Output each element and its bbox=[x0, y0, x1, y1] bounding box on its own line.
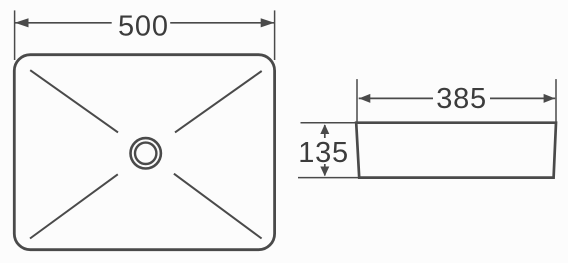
side-view body outline bbox=[356, 123, 556, 178]
svg-text:385: 385 bbox=[436, 83, 487, 115]
diagonal line top-left bbox=[30, 70, 118, 132]
diagonal line bottom-right bbox=[174, 174, 262, 239]
dimension 385 extension line right bbox=[555, 79, 557, 122]
dimension 385 line left segment bbox=[359, 97, 433, 99]
dimension 385 arrowhead right bbox=[544, 94, 555, 103]
dimension 135 arrowhead up bbox=[320, 124, 329, 134]
dimension 385 line right segment bbox=[490, 97, 555, 99]
dimension 385 extension line left bbox=[356, 79, 358, 122]
dimension 135 arrowhead down bbox=[320, 167, 329, 177]
dimension 135 line upper segment bbox=[324, 125, 326, 138]
diagonal line bottom-left bbox=[30, 174, 118, 238]
svg-text:135: 135 bbox=[298, 137, 349, 169]
side-view bottom extension line left bbox=[298, 177, 359, 179]
dimension 135 line lower segment bbox=[324, 164, 326, 176]
basin top-view outline bbox=[14, 55, 274, 250]
dimension 500 arrowhead right bbox=[261, 18, 275, 27]
dimension 500 extension line left bbox=[14, 10, 16, 60]
diagonal line top-right bbox=[175, 71, 262, 132]
svg-text:500: 500 bbox=[118, 11, 169, 43]
side-view rim extension line left (top) bbox=[301, 122, 357, 124]
dimension 500 line left segment bbox=[15, 22, 112, 24]
dimension 500 line right segment bbox=[170, 22, 274, 24]
dimension 385 arrowhead left bbox=[359, 94, 370, 103]
dimension 500 extension line right bbox=[274, 10, 276, 60]
drain outer circle bbox=[131, 138, 161, 168]
dimension 500 arrowhead left bbox=[15, 18, 29, 27]
drain inner circle bbox=[135, 143, 156, 164]
